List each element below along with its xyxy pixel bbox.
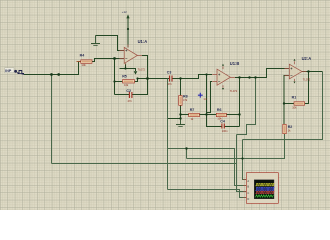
resistor R8 (vertical)	[179, 96, 182, 106]
svg-text:100n: 100n	[222, 129, 228, 133]
wire U2:A output down long	[243, 72, 323, 140]
wire R2 bottom lead down	[284, 134, 286, 159]
svg-text:10k: 10k	[82, 63, 87, 67]
svg-text:U2:A: U2:A	[302, 56, 312, 61]
svg-text:TL072: TL072	[303, 78, 311, 82]
svg-text:B: B	[247, 185, 249, 189]
op-amp U1:A	[119, 45, 142, 65]
capacitor C2	[129, 92, 132, 98]
svg-text:+12: +12	[122, 10, 127, 14]
wire L5 to scope pin D	[168, 190, 247, 198]
wire U2:A output right	[302, 71, 323, 73]
wire U2:A minus feedback vertical	[284, 76, 289, 125]
wire C4 left	[207, 115, 222, 127]
svg-text:TL072: TL072	[138, 68, 146, 72]
generator INP	[5, 68, 24, 75]
wire L2 stub from INP dot	[186, 149, 188, 159]
scope trace D green	[255, 195, 273, 198]
voltage probe (blue)	[198, 93, 208, 101]
wire U1:B minus pin stub	[207, 82, 212, 113]
svg-text:R1: R1	[292, 96, 297, 100]
resistor R5	[123, 80, 135, 83]
wire R1 left lead	[284, 103, 294, 105]
wire U1:A output down	[142, 56, 148, 96]
wire U1:A V- line	[120, 63, 136, 71]
wire input riser to R4	[79, 62, 81, 76]
wire R4 to U1:A inverting input	[92, 59, 124, 63]
wire R6 right lead	[226, 114, 239, 116]
ground 2 (under R8)	[176, 119, 185, 127]
svg-text:1.6: 1.6	[203, 97, 207, 101]
wire R8 node to long vertical	[168, 118, 181, 120]
svg-text:R6: R6	[217, 108, 222, 112]
svg-text:R8: R8	[183, 94, 188, 98]
scope trace C red	[255, 191, 274, 193]
svg-text:10k: 10k	[124, 83, 129, 87]
resistor R4	[77, 60, 93, 63]
wire R5 left lead	[115, 81, 123, 83]
power arrow U1:A V-	[134, 71, 138, 74]
resistor R2 (vertical)	[283, 124, 286, 133]
svg-text:10k: 10k	[292, 105, 297, 109]
svg-text:D: D	[247, 197, 249, 201]
wire hook down to scope pin C	[237, 135, 247, 192]
wire R8 bottom lead	[180, 105, 182, 119]
wire U1:B output net vertical	[239, 77, 241, 127]
wire R1 right lead up to output	[305, 72, 309, 104]
wire U1:B minus vertical to R7 node	[206, 75, 208, 115]
capacitor C3	[170, 76, 173, 82]
wire ground1 to U1:A non-inverting input	[96, 36, 125, 51]
svg-text:U1:B: U1:B	[230, 61, 240, 66]
wire C2 loop bottom right	[132, 94, 148, 96]
svg-text:R7: R7	[190, 108, 195, 112]
svg-text:47n: 47n	[128, 99, 133, 103]
resistor R7	[189, 113, 200, 116]
oscilloscope	[243, 173, 278, 204]
wire hook U1:B out down	[237, 78, 256, 135]
svg-text:C3: C3	[167, 70, 172, 74]
svg-text:TL072: TL072	[230, 89, 238, 93]
wire R7 right lead	[199, 114, 206, 116]
wire R8 top lead	[180, 79, 182, 96]
wire U1:A feedback left vertical	[114, 59, 116, 95]
svg-text:A: A	[247, 179, 249, 183]
svg-text:R4: R4	[80, 54, 85, 58]
wire input horizontal	[24, 74, 79, 76]
scope trace B blue	[255, 187, 274, 190]
svg-text:47k: 47k	[183, 98, 188, 102]
wire output node to C3	[138, 78, 170, 80]
op-amp U1:B	[212, 64, 235, 90]
resistor R1	[294, 102, 305, 105]
svg-text:C2: C2	[126, 89, 131, 93]
wire C3 to U1:B plus jog	[172, 75, 212, 79]
wire C4 right	[225, 126, 240, 128]
op-amp U2:A	[285, 59, 307, 84]
svg-text:R5: R5	[122, 75, 127, 79]
wire C2 loop bottom left	[115, 94, 130, 96]
wire R7 left lead	[181, 114, 189, 116]
wire U1:B output to U2:A plus	[235, 69, 289, 78]
wire down to scope pin A	[243, 140, 247, 180]
capacitor C4	[222, 124, 224, 129]
wire R6 left lead	[207, 114, 217, 116]
svg-text:U1:A: U1:A	[138, 39, 148, 44]
svg-text:47n: 47n	[168, 82, 173, 86]
wire L2 horizontal	[187, 158, 286, 160]
svg-text:C: C	[247, 191, 249, 195]
scope trace A yellow	[255, 183, 274, 185]
wire U1:A V+ power line	[127, 18, 129, 47]
wire L1 INP to scope pin B	[168, 149, 247, 186]
wire R5 right jog up	[135, 79, 138, 83]
svg-text:C4: C4	[220, 120, 225, 124]
ground 1 (U1:A non-inverting)	[91, 36, 100, 46]
svg-text:INP: INP	[5, 69, 12, 73]
resistor R6	[216, 113, 226, 116]
power arrow U1:A V+	[122, 10, 130, 19]
wire L3 horizontal	[52, 163, 237, 165]
wire INP down vertical	[51, 75, 53, 164]
wire long vertical from U1:A out node	[167, 79, 169, 190]
